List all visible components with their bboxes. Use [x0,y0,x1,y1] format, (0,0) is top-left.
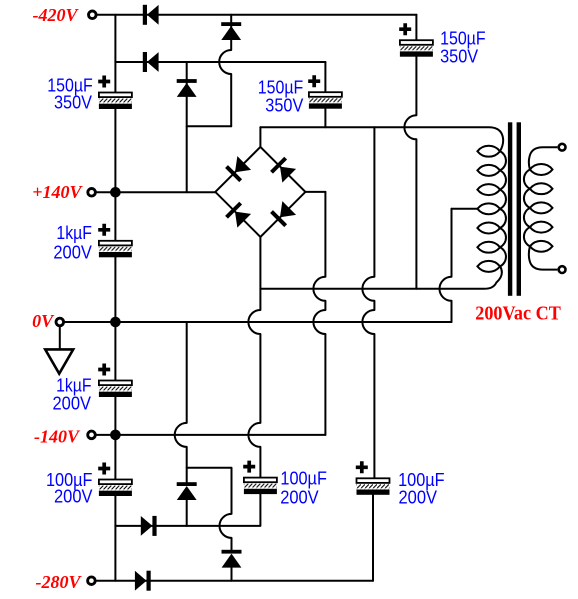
wire: 0V to D6 branch with hop over -140V rail [175,322,187,526]
wire: D3 branch with hop over W2 [219,15,231,126]
wire: C8 bottom stub [372,495,374,581]
svg-text:200V: 200V [280,488,319,508]
svg-text:1kµF: 1kµF [56,223,92,243]
terminal 0V [56,318,64,326]
bridge diode bottom-left [225,202,251,228]
svg-text:150µF: 150µF [440,29,486,49]
svg-text:200V: 200V [54,487,93,507]
diode D1 [143,5,159,25]
wire: vertical x374 with two hops [362,127,374,478]
wire: left bus segment 3 [114,257,116,380]
diode D3 [221,22,241,40]
wire: bottom wire y526 [115,494,260,526]
bridge diode bottom-right [270,201,296,227]
svg-text:0V: 0V [32,311,55,331]
diode D5 [141,516,157,536]
capacitor C5 1kuF 200V [98,364,132,398]
terminal -140V [88,431,96,439]
capacitor C4 1kuF 200V [98,224,132,257]
wire: +140V rail [96,191,215,193]
junction dot -140V [110,430,121,441]
wire: bridge right link [305,191,325,193]
wire: vertical x416 C3 bottom with hop over AC rail [404,57,416,289]
wire: bridge bottom vertical with two hops [248,237,260,478]
wire: secondary top lead [529,147,558,169]
transformer primary winding [477,146,506,272]
capacitor C2 150uF 350V [308,75,342,109]
terminal +140V [88,189,96,197]
wire: ground stub [59,327,61,350]
wire: D4 branch vertical [186,62,188,192]
wire: link between D3 and D4 branches [187,125,232,127]
wire: -140V rail [96,434,325,436]
wire: -420V top rail [97,14,416,16]
svg-text:100µF: 100µF [280,468,327,488]
svg-text:1kµF: 1kµF [56,375,92,395]
capacitor C7 100uF 200V [243,461,277,495]
bridge diode top-right [270,157,296,183]
diode D2 [143,52,159,72]
transformer secondary winding [524,147,557,269]
wire: left bus segment 2 [114,109,116,241]
diode D6 [177,482,197,500]
diode D4 [177,79,197,97]
wire: left bus segment 5 [114,496,116,581]
wire: stub from top rail down to C3 [415,15,417,40]
wire: C2 bottom stub [324,109,326,128]
wire: vertical x325 bridge-right to -140V with two hops [313,192,325,435]
bridge rectifier diamond [215,147,305,237]
capacitor C3 150uF 350V [399,23,433,57]
svg-text:-280V: -280V [36,572,83,592]
terminal secondary bottom [559,266,566,273]
wire: center tap horizontal [452,208,478,210]
svg-text:-140V: -140V [34,426,81,446]
wire: -280V rail [96,580,373,582]
svg-text:200V: 200V [399,487,438,507]
svg-text:+140V: +140V [32,182,83,202]
terminal -420V [89,11,97,19]
svg-text:350V: 350V [54,93,92,113]
wire: rail1 to transformer primary bottom hook [260,266,501,288]
junction dot 0V [110,317,121,328]
wire: left bus segment 1 [114,15,116,93]
wire: second top rail W2 [115,61,325,63]
wire: AC rail to transformer primary top [260,127,503,151]
svg-text:350V: 350V [440,47,478,67]
wire: bridge top stub [259,127,261,147]
diode D8 [135,571,151,591]
capacitor C1 150uF 350V [98,76,132,110]
wire: secondary bottom lead [529,246,558,269]
wire: 0V rail [65,321,452,323]
diode D7 [222,550,242,568]
transformer core [508,122,521,295]
bridge diode top-left [225,156,251,182]
wire: center-tap riser with hop over rail1 [440,209,452,322]
svg-text:350V: 350V [265,95,303,115]
capacitor C8 100uF 200V [356,461,390,495]
ground symbol [45,349,73,373]
wire: stub W2 down to C2 [324,62,326,92]
svg-text:-420V: -420V [33,5,80,25]
junction dot +140V [110,187,121,198]
wire: left bus segment 4 [114,397,116,480]
svg-text:200V: 200V [53,394,92,414]
svg-text:200Vac CT: 200Vac CT [475,304,561,325]
terminal -280V [88,577,96,585]
wire: D7 branch with hop over bottom wire [187,468,232,581]
terminal secondary top [559,144,566,151]
capacitor C6 100uF 200V [98,463,132,497]
svg-text:200V: 200V [53,242,92,262]
